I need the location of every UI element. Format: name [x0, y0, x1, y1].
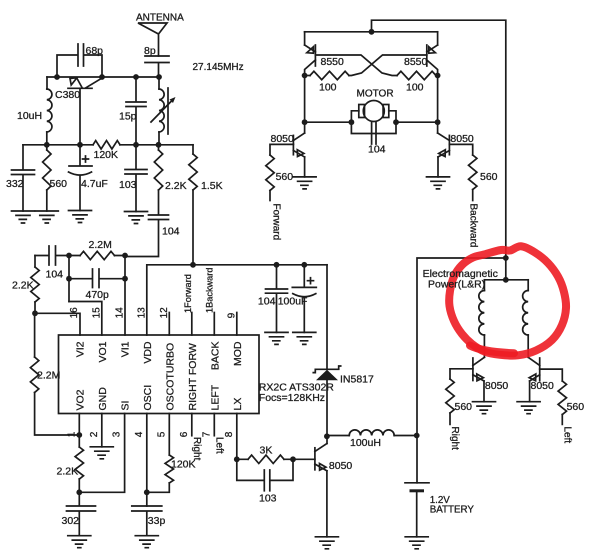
- ground: [517, 402, 540, 414]
- svg-text:8: 8: [224, 431, 235, 437]
- svg-text:470p: 470p: [86, 289, 110, 301]
- capacitor 104 (under 2.2K): [125, 190, 180, 257]
- op-amp U1 RX2C ATS302R (IC box): [59, 335, 335, 414]
- capacitor 8p: [144, 45, 169, 77]
- transistor Q1 C380: [55, 78, 102, 145]
- wire H-bridge top rail: [305, 31, 438, 33]
- diode D1 IN5817: [313, 265, 374, 444]
- inductor 100uH: [327, 430, 417, 449]
- svg-text:10uH: 10uH: [17, 110, 42, 122]
- svg-text:8050: 8050: [450, 133, 474, 145]
- transistor Q3 8550 (right high side): [404, 32, 438, 76]
- resistor 100 (right): [397, 71, 438, 93]
- ground: [125, 212, 148, 224]
- capacitor 100uF electrolytic: [278, 265, 317, 333]
- wire mid bus: [23, 144, 193, 146]
- svg-text:IN5817: IN5817: [340, 374, 374, 386]
- svg-text:LX: LX: [232, 398, 244, 411]
- red annotation circle: [449, 246, 566, 355]
- svg-text:103: 103: [259, 493, 277, 505]
- pin 7 lead: [213, 414, 215, 436]
- ground: [12, 211, 35, 223]
- wire supply feed to top right: [372, 20, 506, 258]
- pin 3 lead: [79, 414, 124, 493]
- svg-text:4.7uF: 4.7uF: [81, 178, 108, 190]
- pin 5 lead: [168, 414, 170, 456]
- svg-text:8050: 8050: [531, 380, 555, 392]
- node top bus junctions: [54, 74, 60, 80]
- svg-text:2.2K: 2.2K: [57, 466, 79, 478]
- svg-text:2.2M: 2.2M: [37, 370, 60, 382]
- svg-text:560: 560: [276, 171, 294, 183]
- pin 6 lead: [191, 414, 193, 436]
- svg-text:16: 16: [69, 307, 80, 319]
- ground: [293, 332, 316, 344]
- svg-text:12: 12: [159, 307, 170, 319]
- svg-text:1Forward: 1Forward: [183, 274, 193, 313]
- svg-text:Focs=128KHz: Focs=128KHz: [259, 392, 325, 404]
- svg-text:MOTOR: MOTOR: [357, 89, 394, 100]
- svg-text:Right: Right: [191, 437, 202, 461]
- svg-text:27.145MHz: 27.145MHz: [193, 62, 244, 73]
- transistor Q7 8050 (Right channel): [473, 357, 509, 401]
- svg-text:GND: GND: [97, 387, 109, 411]
- antenna symbol: [138, 23, 167, 56]
- svg-text:2.2K: 2.2K: [12, 280, 34, 292]
- svg-text:4: 4: [134, 431, 145, 437]
- svg-text:2.2K: 2.2K: [165, 180, 187, 192]
- wire Q8 base: [540, 369, 563, 381]
- svg-text:VI2: VI2: [74, 341, 86, 357]
- resistor 120K (pin5): [147, 455, 196, 492]
- wire pin15 branch: [69, 302, 102, 336]
- svg-text:LEFT: LEFT: [209, 384, 221, 410]
- pin 9 stub: [236, 313, 238, 336]
- ground: [427, 177, 450, 189]
- svg-text:Right: Right: [449, 427, 460, 451]
- resistor 560 (rf): [43, 145, 68, 211]
- ground: [90, 447, 113, 459]
- svg-text:14: 14: [114, 307, 125, 319]
- svg-text:104: 104: [46, 269, 64, 281]
- transistor Q6 8050 (LX driver): [315, 444, 353, 537]
- svg-text:103: 103: [119, 179, 137, 191]
- variable inductor L2: [151, 77, 176, 145]
- svg-text:100uF: 100uF: [278, 296, 308, 308]
- svg-text:6: 6: [179, 431, 190, 437]
- pin 12 stub: [168, 313, 170, 336]
- svg-text:OSCI: OSCI: [142, 385, 154, 411]
- ground: [265, 332, 288, 344]
- svg-text:104: 104: [368, 144, 386, 156]
- capacitor 103 (pin8): [237, 459, 293, 504]
- resistor 560 (Backward): [469, 155, 498, 201]
- ground: [293, 177, 316, 189]
- svg-text:3: 3: [112, 431, 123, 437]
- svg-text:560: 560: [480, 171, 498, 183]
- wire Q5 base: [449, 144, 472, 155]
- capacitor 4.7uF electrolytic: [69, 145, 108, 211]
- capacitor 103 (rf): [119, 145, 147, 212]
- wire left rail: [304, 76, 306, 134]
- pin 11 stub: [191, 313, 193, 336]
- svg-text:RIGHT FORW: RIGHT FORW: [187, 343, 199, 410]
- svg-text:120K: 120K: [94, 149, 119, 161]
- svg-text:3K: 3K: [260, 445, 273, 457]
- battery BT1 1.2V: [405, 436, 474, 537]
- svg-text:Backward: Backward: [467, 204, 478, 248]
- svg-text:33p: 33p: [148, 515, 166, 527]
- pin 4 lead: [146, 414, 148, 507]
- wire pin16 branch: [35, 313, 80, 335]
- svg-text:8050: 8050: [329, 460, 353, 472]
- transistor Q2 8550 (left high side): [305, 32, 344, 76]
- resistor 1.5K: [189, 145, 223, 265]
- wire Q7 base: [450, 369, 473, 379]
- capacitor 68p: [57, 44, 103, 77]
- wire VDD rail: [147, 265, 327, 335]
- svg-text:Left: Left: [562, 427, 573, 444]
- inductor left electromagnet: [479, 280, 485, 358]
- resistor 2.2K (pin1): [57, 447, 84, 492]
- svg-text:100: 100: [406, 82, 424, 94]
- svg-text:8p: 8p: [144, 45, 156, 57]
- svg-text:332: 332: [6, 178, 24, 190]
- svg-text:7: 7: [201, 431, 212, 437]
- svg-text:1.5K: 1.5K: [201, 180, 223, 192]
- resistor 3K: [237, 445, 293, 464]
- inductor 10uH: [17, 77, 52, 145]
- wire cross coupling right base: [349, 55, 427, 76]
- ground: [68, 536, 91, 548]
- svg-text:2.2M: 2.2M: [89, 239, 112, 251]
- wire coil bracket: [484, 279, 528, 281]
- svg-text:1Backward: 1Backward: [205, 268, 215, 313]
- svg-text:5: 5: [156, 431, 167, 437]
- pin 8 lead: [236, 414, 238, 460]
- wire to Q6 base: [293, 458, 315, 460]
- wire Q4 base: [270, 144, 293, 155]
- resistor 2.2M (horizontal): [69, 239, 125, 260]
- resistor 560 (Right): [446, 379, 472, 424]
- resistor 120K: [93, 141, 120, 161]
- svg-text:BATTERY: BATTERY: [430, 505, 475, 516]
- svg-text:8550: 8550: [321, 56, 345, 68]
- node mid bus junctions: [44, 142, 50, 148]
- svg-text:C380: C380: [55, 89, 80, 101]
- transistor Q5 8050 (right low side): [438, 133, 474, 177]
- svg-text:BACK: BACK: [209, 342, 221, 371]
- svg-text:OSCOTURBO: OSCOTURBO: [164, 343, 176, 411]
- svg-text:100: 100: [319, 82, 337, 94]
- capacitor 104 (series left): [35, 246, 69, 281]
- inductor right electromagnet: [523, 280, 529, 358]
- svg-text:104: 104: [162, 226, 180, 238]
- svg-text:560: 560: [455, 401, 473, 413]
- svg-text:68p: 68p: [86, 45, 104, 57]
- resistor 2.2K (rf): [154, 145, 186, 192]
- svg-text:Forward: Forward: [270, 204, 281, 241]
- ground: [35, 211, 58, 223]
- svg-text:104: 104: [258, 296, 276, 308]
- svg-text:Power(L&R): Power(L&R): [428, 279, 485, 291]
- svg-text:VO1: VO1: [97, 341, 109, 362]
- pin 2 lead: [101, 414, 103, 447]
- ground: [69, 211, 92, 223]
- svg-text:560: 560: [567, 401, 585, 413]
- capacitor 15p: [119, 77, 146, 145]
- capacitor 104 (decoupling): [258, 265, 288, 333]
- svg-text:VO2: VO2: [74, 389, 86, 410]
- pin 10 stub: [213, 313, 215, 336]
- resistor 2.2M (vertical): [30, 313, 79, 435]
- capacitor 33p: [132, 506, 166, 536]
- svg-text:9: 9: [226, 312, 237, 318]
- ground: [405, 537, 428, 549]
- svg-text:560: 560: [50, 178, 68, 190]
- svg-text:VI1: VI1: [120, 341, 132, 357]
- svg-text:Left: Left: [214, 437, 225, 454]
- svg-text:15p: 15p: [119, 111, 137, 123]
- ground: [315, 537, 338, 549]
- capacitor 332: [6, 145, 35, 211]
- transistor Q8 8050 (Left channel): [528, 357, 554, 401]
- transistor Q4 8050 (left low side): [271, 133, 305, 177]
- wire right rail: [437, 76, 439, 134]
- ground: [135, 536, 158, 548]
- resistor 2.2K (left): [12, 256, 39, 314]
- pin 1 lead: [78, 414, 80, 448]
- svg-text:2: 2: [89, 431, 100, 437]
- capacitor 302: [62, 492, 96, 535]
- svg-text:VDD: VDD: [142, 341, 154, 364]
- svg-text:SI: SI: [120, 401, 132, 411]
- resistor 560 (Forward): [266, 155, 293, 201]
- svg-text:15: 15: [92, 307, 103, 319]
- svg-text:100uH: 100uH: [350, 437, 381, 449]
- svg-text:302: 302: [62, 515, 80, 527]
- wire electromagnetic supply: [417, 258, 506, 436]
- svg-text:ANTENNA: ANTENNA: [136, 13, 184, 24]
- ground: [473, 402, 496, 414]
- svg-text:8550: 8550: [404, 56, 428, 68]
- svg-text:MOD: MOD: [232, 341, 244, 366]
- resistor 560 (Left): [558, 381, 584, 424]
- wire top bus: [47, 76, 159, 78]
- svg-text:8050: 8050: [271, 133, 295, 145]
- wire cross coupling left base: [315, 55, 397, 76]
- resistor 100 (left): [305, 71, 349, 93]
- capacitor 470p: [69, 256, 125, 336]
- motor M1: [305, 89, 438, 156]
- svg-text:13: 13: [137, 307, 148, 319]
- svg-text:8050: 8050: [485, 380, 509, 392]
- svg-text:1: 1: [66, 431, 77, 437]
